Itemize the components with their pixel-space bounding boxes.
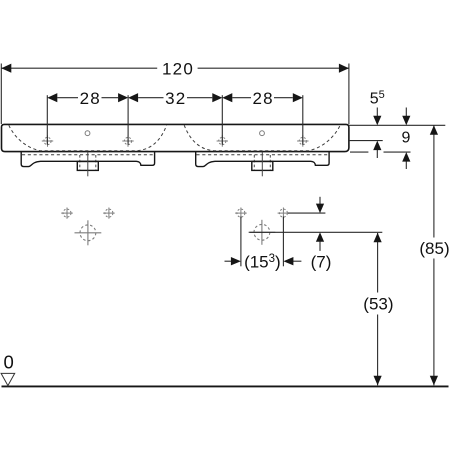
right mounting bracket under basin xyxy=(196,152,329,167)
datum zero triangle xyxy=(1,373,15,385)
drain template left (dashed circle with cross) xyxy=(75,220,102,245)
fixing hole template right: hole 1 xyxy=(235,208,247,219)
left overflow hole xyxy=(85,131,90,136)
dimension 53 down arrowhead xyxy=(374,376,382,386)
dimension 9 down arrow xyxy=(402,108,410,126)
tap hole 4 on deck xyxy=(297,135,308,146)
left bowl hidden outline (dashed) xyxy=(9,125,167,151)
svg-text:(85): (85) xyxy=(419,239,449,258)
dimension 120 left arrowhead xyxy=(1,64,11,73)
dimension 85 up arrowhead xyxy=(430,125,438,135)
extension line left edge (120) xyxy=(0,64,2,125)
hidden underside edge left (dashed) xyxy=(22,154,154,156)
dimension 85 down arrowhead xyxy=(430,376,438,386)
svg-text:(153): (153) xyxy=(244,252,281,271)
svg-text:120: 120 xyxy=(162,59,194,78)
drain template right (dashed circle with cross) xyxy=(249,220,276,245)
left drain fitting xyxy=(77,152,98,177)
extension line tap 3 xyxy=(221,95,223,145)
dimension 15.3 right arrow xyxy=(283,257,301,265)
extension line fixing hole 2 xyxy=(282,217,284,267)
dimension 32 arrowheads xyxy=(128,93,138,102)
svg-text:9: 9 xyxy=(401,129,410,146)
reference line ceramic bottom edge right xyxy=(349,140,383,142)
fixing hole template left: hole 2 xyxy=(103,208,115,219)
tap hole 3 on deck xyxy=(217,135,228,146)
dimension 28 right arrowheads xyxy=(222,93,232,102)
right overflow hole xyxy=(260,131,265,136)
extension line tap 4 xyxy=(302,95,304,145)
fixing hole template right: hole 2 xyxy=(278,208,290,219)
dimension 28 left line xyxy=(57,97,118,99)
dimension 28 left arrowheads xyxy=(47,93,57,102)
extension line fixing hole 1 xyxy=(240,217,242,267)
extension line right edge (120) xyxy=(348,64,350,125)
svg-text:(7): (7) xyxy=(311,252,332,271)
dimension 15.3 left arrow xyxy=(225,257,241,265)
dimension 32 line xyxy=(138,97,212,99)
dimension 120 right arrowhead xyxy=(339,64,349,73)
reference line basin bottom right xyxy=(350,151,368,153)
tap hole 1 on deck xyxy=(42,135,53,146)
svg-text:28: 28 xyxy=(252,89,273,108)
floor line xyxy=(2,385,449,387)
reference line basin top right xyxy=(349,124,445,126)
right drain fitting xyxy=(252,152,273,177)
dimension 120 line xyxy=(1,67,349,69)
reference line drain center right xyxy=(249,231,382,233)
svg-text:32: 32 xyxy=(165,89,186,108)
dimension 5.5 down arrow xyxy=(373,108,381,126)
left mounting bracket under basin xyxy=(21,152,154,167)
svg-text:0: 0 xyxy=(4,352,14,373)
dimension 28 right line xyxy=(232,97,292,99)
extension line tap 2 xyxy=(127,95,129,145)
hidden underside edge right (dashed) xyxy=(197,154,329,156)
washbasin body outline xyxy=(2,124,349,151)
dimension 7 up arrow xyxy=(316,232,324,251)
right bowl hidden outline (dashed) xyxy=(184,125,340,151)
fixing hole template left: hole 1 xyxy=(61,208,73,219)
svg-text:28: 28 xyxy=(80,89,101,108)
extension line tap 1 xyxy=(46,95,48,145)
dimension 9 up arrow xyxy=(402,152,410,169)
dimension 53 up arrowhead xyxy=(374,233,382,243)
tap hole 2 on deck xyxy=(122,135,133,146)
dimension 53 line xyxy=(377,233,379,385)
dimension 5.5 up arrow xyxy=(373,141,381,158)
reference line fixing holes right xyxy=(288,212,325,214)
dimension 85 line xyxy=(433,125,435,385)
dimension 7 down arrow xyxy=(316,197,324,213)
svg-text:(53): (53) xyxy=(363,295,393,314)
